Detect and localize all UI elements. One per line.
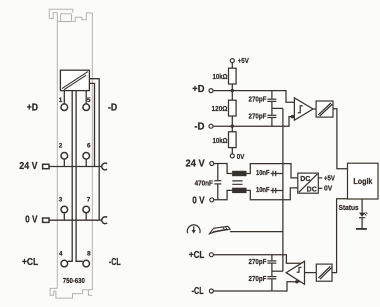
svg-text:750-630: 750-630 — [63, 276, 85, 285]
FE wire — [230, 231, 283, 233]
wire R2 top — [231, 91, 233, 101]
wire -D line — [213, 117, 294, 127]
junction comparator lower input — [291, 115, 294, 118]
capacitor C4 270pF clock bottom — [267, 277, 276, 291]
wire pin to terminal 1 — [63, 91, 65, 104]
terminal 3 — [61, 206, 68, 220]
junction +D/R1 — [231, 89, 234, 92]
electronics block (transformer box) in module — [60, 70, 89, 90]
svg-text:470nF: 470nF — [195, 178, 214, 187]
wire box right to 0V jumper — [89, 79, 99, 221]
marking pen symbol — [209, 226, 230, 233]
svg-text:270pF: 270pF — [249, 94, 267, 103]
svg-text:10nF: 10nF — [256, 185, 270, 194]
svg-text:-CL: -CL — [192, 286, 204, 297]
24V power jumper contact arc — [102, 163, 107, 170]
wire box right to 24V jumper — [89, 83, 94, 166]
wire clock caps midpoint to FE rail — [272, 270, 283, 272]
+5V terminal — [230, 59, 234, 63]
isolator X1 — [316, 101, 333, 117]
wire +5V to R1 — [231, 63, 233, 69]
wire +CL line — [213, 255, 301, 264]
capacitor C2 270pF — [267, 115, 276, 126]
resistor R2 120R — [229, 100, 237, 116]
0V power jumper contact arc — [102, 217, 107, 224]
svg-text:+CL: +CL — [189, 250, 204, 261]
svg-text:8: 8 — [87, 250, 91, 257]
svg-text:4: 4 — [59, 250, 63, 257]
svg-text:Status: Status — [339, 203, 359, 212]
capacitor C1 270pF chain top — [267, 91, 276, 116]
svg-text:120Ω: 120Ω — [212, 104, 228, 113]
Logik block — [348, 163, 379, 199]
svg-text:10kΩ: 10kΩ — [213, 72, 228, 81]
wire choke top out — [247, 164, 298, 178]
FE vertical rail — [282, 108, 284, 271]
svg-text:270pF: 270pF — [249, 274, 267, 283]
wire middle B to terminal 8 — [76, 91, 83, 262]
svg-text:0V: 0V — [237, 152, 245, 161]
terminal 2 — [61, 153, 68, 167]
0V terminal under R3 — [230, 154, 234, 158]
wire 0V to choke — [214, 190, 232, 199]
schematic labels — [186, 84, 206, 297]
wire caps midpoint to FE rail — [272, 107, 283, 109]
LED status — [356, 199, 367, 229]
comparator U1 receiver — [294, 98, 313, 120]
wire U1 out — [313, 108, 316, 110]
+CL terminal — [209, 253, 213, 257]
capacitor C7 10nF lower — [271, 188, 283, 193]
24V field rail — [49, 166, 102, 168]
driver U3 clock — [286, 261, 304, 284]
+D terminal — [209, 89, 213, 93]
svg-text:6: 6 — [87, 143, 91, 150]
wire X1 to Logik — [333, 109, 348, 169]
svg-text:-CL: -CL — [109, 257, 121, 268]
svg-text:270pF: 270pF — [249, 257, 267, 266]
0V terminal schematic — [210, 198, 214, 202]
svg-text:24 V: 24 V — [186, 158, 206, 169]
terminal 6 — [83, 153, 90, 167]
svg-text:DC: DC — [307, 187, 317, 194]
svg-text:270pF: 270pF — [249, 112, 267, 121]
svg-text:+CL: +CL — [22, 257, 38, 268]
-CL terminal — [209, 289, 213, 293]
0V field rail — [49, 219, 102, 221]
svg-text:10kΩ: 10kΩ — [213, 136, 228, 145]
svg-text:2: 2 — [59, 143, 63, 150]
svg-text:5: 5 — [87, 97, 91, 104]
functional earth symbol — [187, 225, 200, 234]
wire choke bottom out — [247, 188, 298, 200]
svg-text:+5V: +5V — [238, 56, 249, 65]
svg-text:Logik: Logik — [353, 177, 372, 186]
wire middle A to terminal 4 — [68, 91, 73, 262]
svg-text:1: 1 — [59, 97, 63, 104]
svg-text:3: 3 — [59, 196, 63, 203]
wire R1 to +D node — [231, 84, 233, 91]
svg-text:24 V: 24 V — [19, 161, 38, 172]
DC/DC converter U2 — [298, 173, 319, 193]
svg-text:+D: +D — [27, 103, 38, 114]
svg-text:DC: DC — [300, 176, 310, 183]
capacitor C5 470nF — [214, 164, 221, 200]
choke L1 bar top — [232, 171, 246, 176]
wire 0V out — [318, 187, 322, 189]
choke L1 bar bottom — [232, 188, 246, 193]
-D terminal — [209, 124, 213, 128]
terminal 5 — [83, 104, 90, 111]
svg-text:7: 7 — [87, 196, 91, 203]
capacitor C6 10nF upper — [271, 171, 283, 176]
junction -D/R2 — [231, 125, 234, 128]
svg-text:0V: 0V — [324, 184, 332, 193]
choke core lines — [232, 181, 242, 184]
terminal 8 — [83, 260, 90, 267]
24V plug connector — [43, 164, 49, 168]
resistor R1 10k — [229, 68, 237, 84]
svg-text:0 V: 0 V — [192, 195, 205, 206]
wire R3 to 0V — [231, 148, 233, 154]
0V plug connector — [43, 218, 49, 222]
24V terminal schematic — [210, 162, 214, 166]
wire 24V to choke — [214, 164, 232, 174]
svg-text:+5V: +5V — [324, 174, 335, 183]
wire R3 top — [231, 126, 233, 132]
wire U3 to isolator — [305, 272, 317, 274]
svg-text:-D: -D — [108, 103, 117, 114]
terminal 1 — [61, 104, 68, 111]
svg-text:0 V: 0 V — [25, 215, 38, 226]
terminal 4 — [61, 260, 68, 267]
isolator X2 — [316, 264, 332, 281]
svg-text:+D: +D — [192, 84, 204, 95]
wire +D line — [213, 91, 294, 103]
wire -CL line — [213, 282, 301, 291]
capacitor C3 270pF clock top — [267, 255, 276, 277]
junction driver lower output — [295, 280, 298, 283]
resistor R3 10k — [229, 132, 237, 148]
svg-text:10nF: 10nF — [256, 168, 270, 177]
terminal 7 — [83, 206, 90, 220]
wire pin to terminal 5 — [85, 91, 87, 104]
svg-text:-D: -D — [194, 121, 204, 132]
wire R2 bottom — [231, 116, 233, 126]
module 750-630 housing outline top — [49, 9, 92, 298]
wire Logik to clock isolator — [332, 199, 348, 273]
wire +5V out — [318, 177, 322, 179]
module labels — [19, 103, 120, 268]
